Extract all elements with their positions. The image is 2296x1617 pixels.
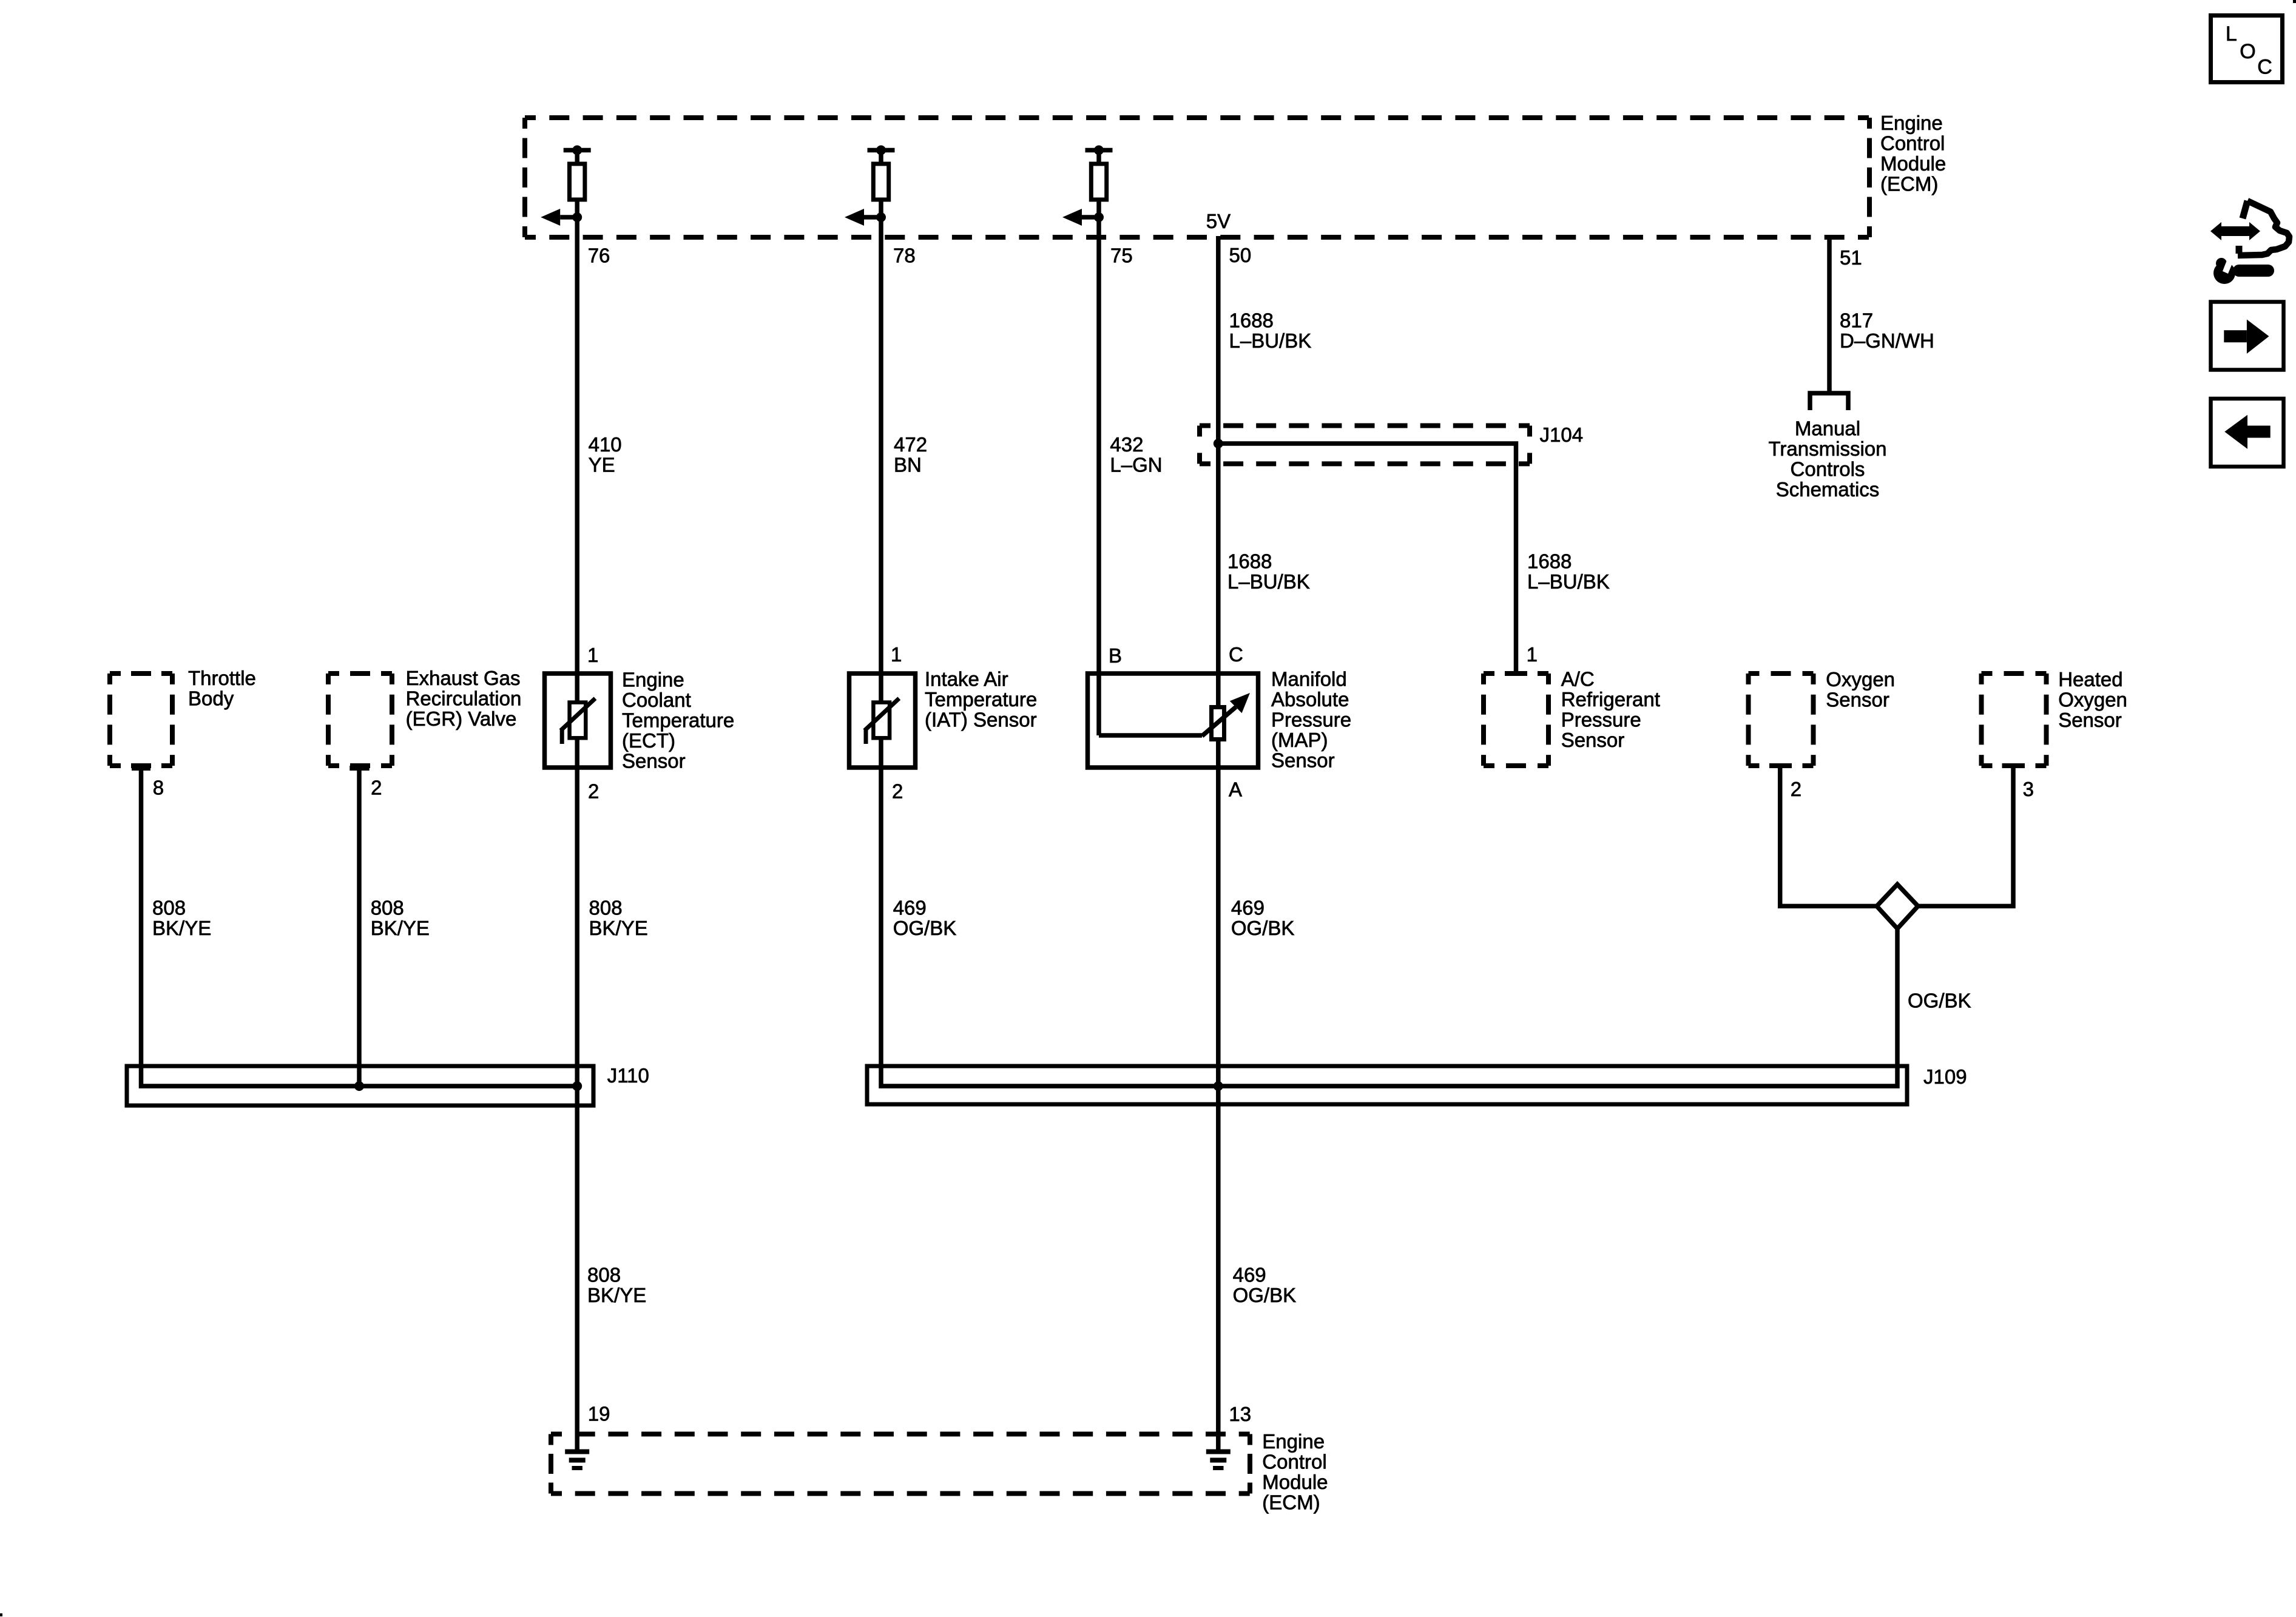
- svg-text:Sensor: Sensor: [2058, 709, 2122, 731]
- svg-text:50: 50: [1229, 244, 1252, 266]
- svg-text:Oxygen: Oxygen: [1826, 668, 1895, 690]
- Engine Coolant Temperature (ECT) Sensor box: [545, 673, 611, 768]
- thermistor (IAT): [865, 698, 899, 744]
- wire 817 D-GN/WH (ECM pin 51): [1827, 236, 1832, 391]
- svg-text:Heated: Heated: [2058, 668, 2122, 690]
- wire: J109 internal bus: [881, 768, 1897, 1086]
- label: Manifold Absolute Pressure (MAP) Sensor: [1271, 668, 1351, 772]
- svg-text:YE: YE: [589, 454, 615, 476]
- svg-text:469: 469: [893, 897, 927, 919]
- pin 50 label: [1229, 244, 1252, 266]
- icon: repair instructions (arrow, panel, wrench): [2210, 201, 2289, 284]
- svg-text:BK/YE: BK/YE: [589, 917, 648, 939]
- EGR Valve (dashed box): [328, 673, 392, 766]
- svg-text:Engine: Engine: [1262, 1430, 1325, 1453]
- svg-text:OG/BK: OG/BK: [1908, 990, 1971, 1012]
- svg-text:Engine: Engine: [622, 669, 684, 691]
- svg-text:2: 2: [1791, 778, 1801, 800]
- svg-text:76: 76: [588, 245, 610, 267]
- terminal bar, oxygen sensor pin 2: [1769, 763, 1792, 768]
- label 469 OG/BK (IAT): [893, 897, 957, 940]
- wire (heated oxygen sensor pin 3 to splice): [1918, 766, 2013, 906]
- svg-text:1688: 1688: [1229, 309, 1274, 332]
- svg-text:808: 808: [152, 897, 186, 919]
- corner mark (bottom left): [0, 1613, 2, 1616]
- ground (ECM pin 13): [1206, 1452, 1231, 1468]
- label: Engine Control Module (ECM) bottom: [1262, 1430, 1328, 1514]
- svg-text:75: 75: [1110, 245, 1133, 267]
- pin A label: [1229, 778, 1242, 801]
- svg-text:C: C: [1229, 643, 1243, 666]
- splice pack J110 (box): [127, 1066, 593, 1106]
- svg-text:1688: 1688: [1227, 550, 1272, 573]
- wire 410 YE (ECM pin 76 to ECT sensor, to ground pin 19): [575, 217, 579, 1451]
- svg-text:1: 1: [891, 643, 902, 666]
- wire 472 BN (ECM pin 78 to IAT sensor, to J109): [879, 217, 883, 768]
- terminal bar, EGR pin 2: [349, 766, 369, 771]
- pin 1 label (A/C): [1527, 643, 1538, 666]
- svg-text:OG/BK: OG/BK: [1233, 1284, 1297, 1306]
- wire 808 BK/YE (EGR to J110): [357, 768, 362, 1086]
- label: Engine Control Module (ECM) top right: [1880, 112, 1946, 195]
- A/C Refrigerant Pressure Sensor (dashed box): [1484, 673, 1548, 766]
- svg-text:2: 2: [892, 780, 903, 803]
- svg-text:L–BU/BK: L–BU/BK: [1227, 570, 1310, 593]
- pin 2 label (ECT): [588, 780, 599, 803]
- pin 76 label: [588, 245, 610, 267]
- svg-text:A: A: [1229, 778, 1242, 801]
- label J110: [607, 1064, 649, 1087]
- label 1688 L-BU/BK (A/C branch): [1527, 550, 1610, 593]
- label 808 BK/YE (throttle): [152, 897, 211, 940]
- svg-text:(IAT) Sensor: (IAT) Sensor: [925, 709, 1037, 731]
- svg-text:Controls: Controls: [1791, 458, 1865, 481]
- svg-text:3: 3: [2023, 778, 2034, 800]
- pin 2 label (O2): [1791, 778, 1801, 800]
- svg-text:L–GN: L–GN: [1110, 454, 1162, 476]
- svg-text:808: 808: [589, 897, 623, 919]
- junction at J104 on wire 1688: [1214, 439, 1223, 448]
- junction at J109 (MAP wire): [1214, 1081, 1223, 1091]
- svg-text:Manifold: Manifold: [1271, 668, 1347, 690]
- icon: forward arrow box: [2211, 302, 2284, 370]
- resistor (ECM internal pull-up, pin 78): [845, 146, 895, 226]
- ground (ECM pin 19): [565, 1452, 589, 1468]
- svg-text:1: 1: [1527, 643, 1538, 666]
- svg-text:B: B: [1109, 644, 1122, 667]
- svg-text:808: 808: [371, 897, 404, 919]
- label 808 BK/YE (lower): [587, 1264, 646, 1307]
- pin 2 label (IAT): [892, 780, 903, 803]
- pin 78 label: [893, 245, 916, 267]
- svg-text:BK/YE: BK/YE: [152, 917, 211, 939]
- svg-text:J109: J109: [1923, 1065, 1967, 1088]
- junction at J110 (ECT wire): [572, 1081, 582, 1091]
- svg-text:51: 51: [1840, 246, 1862, 269]
- Engine Control Module (ECM) box (bottom, dashed): [551, 1434, 1250, 1494]
- wire 469 OG/BK (MAP pin A down): [1216, 768, 1221, 768]
- terminal bar, A/C sensor pin 1: [1505, 671, 1527, 676]
- Heated Oxygen Sensor (dashed box): [1982, 673, 2047, 766]
- svg-text:2: 2: [588, 780, 599, 803]
- pin 1 label (IAT): [891, 643, 902, 666]
- pin 51 label: [1840, 246, 1862, 269]
- Intake Air Temperature (IAT) Sensor box: [849, 673, 916, 768]
- pin 13 label: [1229, 1403, 1251, 1425]
- svg-text:D–GN/WH: D–GN/WH: [1840, 329, 1934, 352]
- svg-text:Sensor: Sensor: [1271, 749, 1335, 772]
- svg-text:Module: Module: [1262, 1471, 1328, 1493]
- pin 8 label: [153, 777, 164, 799]
- svg-text:8: 8: [153, 777, 164, 799]
- svg-text:L–BU/BK: L–BU/BK: [1229, 329, 1312, 352]
- svg-text:Refrigerant: Refrigerant: [1561, 688, 1660, 711]
- label J109: [1923, 1065, 1967, 1088]
- wire: MAP internal link: [1099, 733, 1202, 738]
- svg-text:78: 78: [893, 245, 916, 267]
- label 469 OG/BK (lower): [1233, 1264, 1297, 1307]
- label 1688 L-BU/BK (left of MAP): [1227, 550, 1310, 593]
- pin B label: [1109, 644, 1122, 667]
- junction at J110 (EGR wire): [354, 1081, 364, 1091]
- svg-text:5V: 5V: [1206, 210, 1231, 232]
- node 5V label: [1206, 210, 1231, 232]
- label 1688 L-BU/BK (upper): [1229, 309, 1312, 353]
- wire (oxygen sensor pin 2 to splice): [1780, 766, 1877, 906]
- svg-text:Temperature: Temperature: [622, 709, 734, 732]
- label 817 D-GN/WH: [1840, 309, 1934, 353]
- pin 2 label (EGR): [371, 777, 382, 799]
- svg-text:Module: Module: [1880, 152, 1946, 175]
- wire 1688 L-BU/BK (ECM pin 50, 5V to MAP sensor / ground pin 13): [1216, 236, 1221, 1451]
- label OG/BK: [1908, 990, 1971, 1012]
- label 410 YE: [589, 433, 622, 476]
- svg-text:Absolute: Absolute: [1271, 688, 1349, 711]
- corner mark (top right): [2293, 0, 2296, 3]
- svg-text:Control: Control: [1880, 132, 1945, 154]
- pin C label: [1229, 643, 1243, 666]
- label: Manual Transmission Controls Schematics: [1769, 417, 1887, 501]
- svg-text:Engine: Engine: [1880, 112, 1943, 134]
- svg-text:1688: 1688: [1527, 550, 1572, 573]
- svg-text:Temperature: Temperature: [925, 688, 1037, 711]
- label 472 BN: [894, 433, 927, 476]
- svg-text:Coolant: Coolant: [622, 689, 691, 711]
- terminal bar, heated oxygen sensor pin 3: [2002, 763, 2025, 768]
- svg-text:2: 2: [371, 777, 382, 799]
- Engine Control Module (ECM) connector box (top, dashed): [525, 118, 1869, 237]
- svg-text:(ECM): (ECM): [1880, 172, 1938, 195]
- svg-text:OG/BK: OG/BK: [893, 917, 957, 939]
- potentiometer (MAP sensing element): [1202, 693, 1250, 740]
- svg-text:(EGR) Valve: (EGR) Valve: [406, 707, 517, 730]
- wire 808 BK/YE (throttle body to J110): [141, 768, 578, 1086]
- svg-text:C: C: [2257, 55, 2272, 78]
- label: Throttle Body: [188, 667, 256, 710]
- svg-text:Schematics: Schematics: [1776, 478, 1880, 501]
- svg-text:BN: BN: [894, 454, 922, 476]
- svg-text:A/C: A/C: [1561, 668, 1595, 690]
- svg-text:BK/YE: BK/YE: [587, 1284, 646, 1306]
- label 808 BK/YE (EGR): [371, 897, 430, 940]
- svg-text:Pressure: Pressure: [1561, 709, 1641, 731]
- Oxygen Sensor (dashed box): [1749, 673, 1814, 766]
- svg-text:(MAP): (MAP): [1271, 729, 1328, 751]
- svg-text:Throttle: Throttle: [188, 667, 256, 689]
- svg-text:Sensor: Sensor: [622, 750, 686, 772]
- svg-text:432: 432: [1110, 433, 1143, 456]
- label: Oxygen Sensor: [1826, 668, 1895, 711]
- svg-text:472: 472: [894, 433, 927, 456]
- svg-text:Control: Control: [1262, 1450, 1326, 1473]
- svg-text:Manual: Manual: [1795, 417, 1860, 440]
- pin 75 label: [1110, 245, 1133, 267]
- pin 3 label (HO2S): [2023, 778, 2034, 800]
- pin 19 label: [588, 1403, 610, 1425]
- svg-text:(ECM): (ECM): [1262, 1491, 1320, 1513]
- Manifold Absolute Pressure (MAP) Sensor box: [1088, 673, 1258, 768]
- svg-text:OG/BK: OG/BK: [1231, 917, 1295, 939]
- svg-text:L–BU/BK: L–BU/BK: [1527, 570, 1610, 593]
- icon: LOC reference box: [2211, 16, 2283, 83]
- label 469 OG/BK (MAP): [1231, 897, 1295, 940]
- icon: back arrow box: [2211, 399, 2284, 467]
- svg-text:469: 469: [1231, 897, 1264, 919]
- svg-text:Sensor: Sensor: [1561, 729, 1625, 751]
- off-page connector (to Manual Transmission Controls Schematics): [1810, 393, 1848, 410]
- svg-text:Recirculation: Recirculation: [406, 687, 522, 710]
- svg-text:Sensor: Sensor: [1826, 688, 1889, 711]
- label 808 BK/YE (ECT): [589, 897, 648, 940]
- label J104: [1540, 424, 1584, 446]
- label: A/C Refrigerant Pressure Sensor: [1561, 668, 1660, 752]
- svg-text:Body: Body: [188, 687, 234, 710]
- svg-text:O: O: [2240, 40, 2255, 63]
- wire 432 L-GN (ECM pin 75 to MAP sensor): [1096, 217, 1101, 735]
- svg-text:J110: J110: [607, 1064, 649, 1087]
- label: Engine Coolant Temperature (ECT) Sensor: [622, 669, 734, 772]
- splice pack J104 (dashed box): [1200, 426, 1530, 464]
- svg-text:L: L: [2226, 22, 2237, 46]
- resistor (ECM internal pull-up, pin 76): [541, 146, 591, 226]
- svg-text:(ECT): (ECT): [622, 729, 675, 752]
- svg-text:Oxygen: Oxygen: [2058, 688, 2127, 711]
- label: Heated Oxygen Sensor: [2058, 668, 2127, 731]
- svg-text:Intake Air: Intake Air: [925, 668, 1008, 690]
- svg-text:469: 469: [1233, 1264, 1266, 1286]
- svg-text:Transmission: Transmission: [1769, 437, 1887, 460]
- svg-text:13: 13: [1229, 1403, 1251, 1425]
- pin 1 label (ECT): [587, 644, 598, 666]
- label 432 L-GN: [1110, 433, 1162, 476]
- label: Intake Air Temperature (IAT) Sensor: [925, 668, 1037, 731]
- splice (diamond) OG/BK: [1877, 885, 1918, 929]
- label: Exhaust Gas Recirculation (EGR) Valve: [406, 667, 522, 730]
- Throttle Body (dashed box): [110, 673, 172, 766]
- svg-text:Pressure: Pressure: [1271, 709, 1351, 731]
- thermistor (ECT): [561, 698, 595, 744]
- svg-text:808: 808: [587, 1264, 621, 1286]
- splice pack J109 (box): [867, 1066, 1907, 1104]
- svg-text:Exhaust Gas: Exhaust Gas: [406, 667, 521, 689]
- svg-text:1: 1: [587, 644, 598, 666]
- svg-text:410: 410: [589, 433, 622, 456]
- svg-text:817: 817: [1840, 309, 1873, 332]
- svg-text:19: 19: [588, 1403, 610, 1425]
- resistor (ECM internal pull-up, pin 75): [1062, 146, 1113, 226]
- terminal bar, throttle body pin 8: [132, 766, 150, 771]
- svg-text:J104: J104: [1540, 424, 1584, 446]
- wire: J104 internal bus (1688 L-BU/BK branch): [1218, 444, 1516, 673]
- svg-text:BK/YE: BK/YE: [371, 917, 430, 939]
